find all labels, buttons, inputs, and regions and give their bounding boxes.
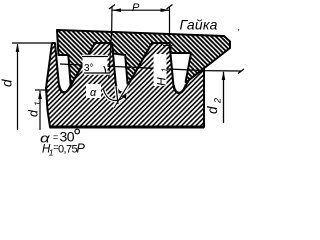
svg-text:α: α <box>90 87 97 99</box>
svg-text:d: d <box>0 79 15 87</box>
svg-text:.: . <box>237 22 240 34</box>
svg-text:1: 1 <box>33 101 43 106</box>
svg-text:3°: 3° <box>84 63 94 74</box>
svg-text:Гайка: Гайка <box>180 17 218 33</box>
svg-text:30: 30 <box>60 128 75 144</box>
svg-text:H: H <box>155 77 169 86</box>
svg-text:P: P <box>77 142 86 156</box>
svg-text:=: = <box>53 132 58 142</box>
svg-text:P: P <box>132 2 140 14</box>
svg-text:1: 1 <box>160 68 170 73</box>
svg-text:d: d <box>205 106 220 114</box>
svg-text:0,75: 0,75 <box>58 144 77 156</box>
svg-text:d: d <box>27 109 41 117</box>
svg-text:2: 2 <box>213 98 223 104</box>
